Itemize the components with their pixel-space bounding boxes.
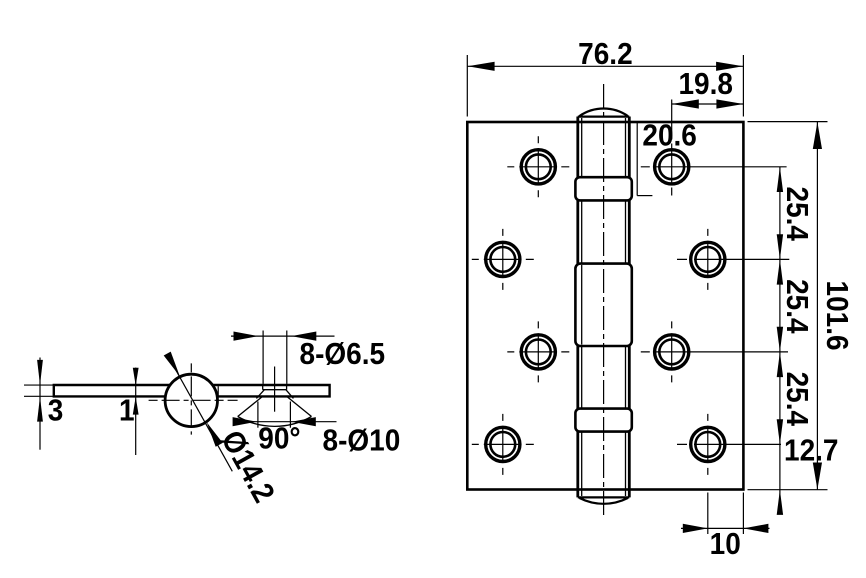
- dimension 8-diam6.5: [231, 331, 335, 384]
- svg-text:20.6: 20.6: [642, 118, 696, 153]
- screw hole row1 right: [641, 100, 787, 198]
- knuckle inner line upper: [581, 265, 583, 345]
- svg-text:3: 3: [48, 393, 64, 428]
- svg-text:90°: 90°: [258, 421, 300, 456]
- barrel right edge: [628, 117, 631, 498]
- dimension 76.2: [467, 55, 743, 117]
- svg-text:8-Ø6.5: 8-Ø6.5: [300, 337, 386, 372]
- barrel pin line left: [581, 118, 583, 496]
- dimension 19.8: [672, 99, 744, 108]
- svg-text:8-Ø10: 8-Ø10: [323, 423, 401, 458]
- screw hole row4 right: [677, 414, 781, 475]
- dimension 8-diam10 / 90deg: [233, 402, 337, 428]
- side view: back leaf edge: [217, 386, 219, 395]
- barrel bottom cap: [578, 497, 630, 503]
- barrel pin line right: [625, 118, 627, 496]
- svg-text:10: 10: [710, 527, 741, 562]
- screw centerline: [274, 367, 276, 412]
- bearing ring bottom: [575, 409, 631, 432]
- bearing ring top: [575, 177, 631, 200]
- screw hole row1 left: [507, 136, 569, 197]
- circle centerline vertical: [190, 363, 192, 434]
- svg-text:101.6: 101.6: [820, 281, 855, 351]
- svg-text:76.2: 76.2: [578, 37, 632, 72]
- screw hole row3 right: [641, 321, 788, 382]
- dimension 20.6 leader: [637, 122, 652, 196]
- countersink bore: [256, 385, 293, 398]
- dimension chain 25.4 / 12.7: [777, 167, 783, 515]
- svg-text:1: 1: [119, 393, 135, 428]
- hinge leaf outline (front view): [467, 122, 743, 490]
- svg-text:25.4: 25.4: [779, 372, 814, 427]
- screw head cone: [238, 397, 312, 427]
- side view: knuckle circle: [165, 374, 217, 426]
- screw hole row2 right: [677, 229, 789, 290]
- diameter 14.2 leader: [164, 352, 233, 472]
- side view: left leaf plate: [54, 385, 170, 396]
- svg-text:25.4: 25.4: [779, 187, 814, 242]
- center knuckle: [575, 264, 631, 346]
- barrel centerline: [603, 84, 605, 517]
- dimension 3: [37, 358, 43, 450]
- side view: right leaf plate: [213, 385, 330, 396]
- circle centerline horizontal: [149, 399, 238, 401]
- dimension 1: [133, 368, 139, 455]
- dimension 101.6: [748, 122, 828, 490]
- screw hole row2 left: [472, 229, 534, 290]
- svg-text:12.7: 12.7: [784, 433, 838, 468]
- screw hole row4 left: [472, 414, 534, 475]
- barrel top cap: [578, 108, 630, 116]
- svg-text:25.4: 25.4: [779, 279, 814, 334]
- svg-text:19.8: 19.8: [678, 67, 732, 102]
- dimension 10: [681, 493, 770, 535]
- side view: plate thickness extension lines: [24, 385, 54, 396]
- screw hole row3 left: [507, 321, 569, 382]
- barrel left edge: [576, 117, 579, 498]
